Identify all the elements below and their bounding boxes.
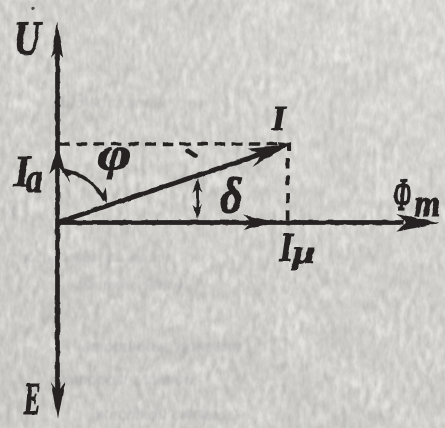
svg-text:I: I	[271, 99, 287, 138]
svg-text:U: U	[14, 13, 42, 66]
svg-text:a: a	[26, 157, 42, 202]
svg-text:выпрямленными: выпрямленными	[75, 275, 193, 294]
svg-text:φ: φ	[98, 130, 131, 180]
svg-text:вторичные покрыт: вторичные покрыт	[82, 336, 241, 357]
svg-text:δ: δ	[220, 168, 242, 223]
svg-text:пр: пр	[2, 199, 20, 219]
svg-text:μ: μ	[291, 234, 315, 269]
svg-text:нспосредованная виде: нспосредованная виде	[2, 247, 161, 266]
svg-text:m: m	[414, 182, 440, 224]
svg-text:Φ: Φ	[394, 169, 412, 220]
svg-text:Индукционные: Индукционные	[51, 92, 170, 113]
svg-text:котором главной: котором главной	[56, 369, 194, 390]
svg-text:E: E	[23, 374, 41, 425]
svg-text:жесткой связью: жесткой связью	[92, 404, 226, 425]
